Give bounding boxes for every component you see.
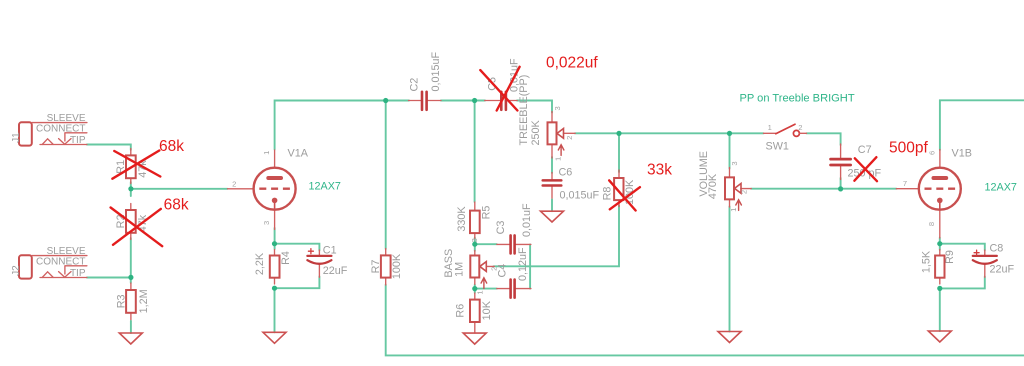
svg-text:22uF: 22uF — [990, 264, 1015, 276]
wire R8 bottom to bass wiper — [494, 206, 620, 267]
resistor R4 — [254, 250, 292, 285]
wire J1 tip to R1 — [87, 145, 131, 151]
junction R1 R2 V1A grid — [128, 186, 133, 191]
svg-text:R4: R4 — [280, 251, 292, 265]
svg-text:500pf: 500pf — [889, 140, 928, 157]
junction C7 at grid net — [838, 186, 843, 191]
svg-text:R8: R8 — [601, 187, 613, 201]
wire top bus to R7 — [385, 101, 387, 250]
svg-text:SW1: SW1 — [766, 140, 789, 152]
svg-text:1: 1 — [475, 290, 484, 294]
svg-text:33k: 33k — [647, 162, 672, 179]
junction R9 C8 ground — [937, 286, 942, 291]
svg-text:2,2K: 2,2K — [254, 252, 266, 275]
svg-text:CONNECT: CONNECT — [36, 123, 85, 134]
wire V1A cathode to R4 and C1 — [275, 228, 320, 332]
capacitor C3 — [495, 203, 533, 253]
switch SW1 — [764, 123, 807, 152]
resistor R1 — [115, 149, 149, 184]
svg-text:250K: 250K — [530, 119, 542, 145]
svg-text:12AX7: 12AX7 — [985, 182, 1017, 194]
cross-out over C5 — [480, 67, 519, 111]
svg-text:1M: 1M — [453, 262, 465, 277]
svg-text:3: 3 — [262, 221, 271, 225]
svg-text:C6: C6 — [559, 167, 573, 179]
capacitor C8 — [973, 243, 1015, 278]
wire top bus to R5 — [474, 101, 476, 203]
capacitor C4 — [497, 247, 531, 298]
svg-text:0,015uF: 0,015uF — [560, 190, 600, 202]
svg-text:C7: C7 — [858, 144, 872, 156]
svg-text:R9: R9 — [944, 250, 956, 264]
wire C3 right to C4 right — [529, 244, 531, 288]
svg-text:1: 1 — [262, 151, 271, 155]
svg-text:TIP: TIP — [70, 268, 86, 279]
svg-text:J1: J1 — [11, 132, 22, 143]
svg-text:V1A: V1A — [288, 148, 309, 160]
svg-text:1: 1 — [768, 123, 772, 132]
wire V1B cathode to R9 and C8 — [940, 238, 985, 332]
capacitor C6 — [543, 167, 600, 212]
resistor R7 — [370, 249, 403, 286]
svg-text:R6: R6 — [454, 304, 466, 318]
svg-text:TREEBLE(PP): TREEBLE(PP) — [518, 75, 530, 146]
capacitor C5 — [485, 58, 521, 110]
svg-text:470K: 470K — [707, 173, 719, 199]
potentiometer VOLUME 470K — [698, 151, 751, 212]
svg-text:SLEEVE: SLEEVE — [47, 113, 86, 124]
wire C7 bottom to grid net — [840, 178, 842, 189]
wire V1B plate to top right — [940, 100, 1024, 150]
wire volume pin1 to ground — [729, 207, 731, 332]
svg-text:6: 6 — [928, 151, 937, 155]
svg-text:R3: R3 — [115, 294, 127, 308]
svg-text:2: 2 — [232, 179, 236, 188]
wire bass pin1 to C4 left and R6 — [475, 285, 497, 294]
svg-text:3: 3 — [470, 238, 479, 242]
cross-out over R2 — [111, 208, 163, 247]
svg-text:J2: J2 — [11, 265, 22, 276]
junction R4 C1 ground — [272, 286, 277, 291]
svg-text:R5: R5 — [481, 206, 493, 220]
svg-text:68k: 68k — [159, 138, 184, 155]
cross-out over R8 — [609, 180, 640, 210]
svg-text:1,5K: 1,5K — [921, 250, 933, 273]
junction top bus at R7 — [383, 98, 388, 103]
svg-text:0,12uF: 0,12uF — [517, 247, 529, 281]
svg-text:2: 2 — [565, 136, 574, 140]
ground under R4 C1 — [263, 332, 286, 343]
wire volume wiper to V1B grid — [751, 188, 897, 190]
svg-text:2: 2 — [798, 123, 802, 132]
wire R5 bottom to bass pin3 and C3 — [475, 238, 497, 252]
wire junction to volume pin3 — [729, 133, 731, 168]
junction bass pin1 — [472, 286, 477, 291]
svg-text:330K: 330K — [456, 206, 468, 232]
svg-text:R7: R7 — [370, 260, 382, 274]
svg-text:12AX7: 12AX7 — [309, 181, 341, 193]
svg-text:7: 7 — [903, 179, 907, 188]
junction wiper net at R8 — [616, 131, 621, 136]
wire V1A plate to top bus — [275, 101, 409, 150]
svg-text:100K: 100K — [391, 253, 403, 279]
junction R2 R3 J2 — [128, 275, 133, 280]
wire R2 bottom to J2 tip and R3 — [87, 238, 131, 283]
svg-text:1,2M: 1,2M — [138, 289, 150, 313]
svg-text:SLEEVE: SLEEVE — [47, 246, 86, 257]
ground under C6 — [541, 211, 564, 222]
cross-out over R1 — [112, 151, 160, 179]
svg-text:C3: C3 — [495, 221, 507, 235]
svg-text:PP on Treeble BRIGHT: PP on Treeble BRIGHT — [740, 93, 855, 105]
connector J1 — [19, 122, 87, 145]
wire treble pin1 to C6 — [551, 157, 553, 173]
junction top bus at R5 — [472, 98, 477, 103]
junction wiper net at volume — [727, 131, 732, 136]
connector J2 — [19, 255, 87, 278]
resistor R8 — [601, 170, 636, 207]
svg-text:0,01uF: 0,01uF — [521, 203, 533, 237]
svg-text:0,015uF: 0,015uF — [430, 51, 442, 91]
svg-text:3: 3 — [730, 161, 739, 165]
resistor R9 — [921, 250, 957, 285]
svg-text:C2: C2 — [408, 78, 420, 92]
junction bass pin3 — [472, 242, 477, 247]
svg-text:C1: C1 — [323, 244, 337, 256]
wire C2 right to C5 left — [441, 100, 485, 102]
svg-text:0,022uf: 0,022uf — [546, 55, 598, 72]
junction V1B cathode — [937, 241, 942, 246]
ground under R3 — [119, 333, 142, 344]
wire SW1 to C7 — [807, 133, 841, 145]
ground under R6 — [463, 333, 486, 344]
potentiometer TREBLE 250K — [518, 75, 575, 161]
resistor R5 — [456, 202, 493, 238]
wire junction to R8 top — [618, 133, 620, 172]
capacitor C1 — [307, 244, 347, 277]
svg-text:1: 1 — [729, 208, 738, 212]
svg-text:CONNECT: CONNECT — [36, 256, 85, 267]
ground under R9 — [928, 331, 951, 342]
wire R1 bottom to V1A grid and R2 — [131, 182, 228, 196]
svg-text:3: 3 — [553, 106, 562, 110]
wire R7 bottom bus to right edge — [386, 285, 1024, 356]
op-amp V1A triode tube — [228, 148, 341, 230]
resistor R6 — [454, 293, 493, 333]
svg-text:10K: 10K — [481, 300, 493, 320]
wire R3 to ground — [130, 321, 132, 333]
svg-text:68k: 68k — [164, 197, 189, 214]
svg-text:1: 1 — [554, 157, 563, 161]
wire treble wiper to SW1 — [575, 132, 764, 134]
svg-text:2: 2 — [740, 190, 749, 194]
junction V1A cathode — [272, 241, 277, 246]
potentiometer BASS 1M — [443, 238, 498, 294]
svg-text:C4: C4 — [497, 264, 509, 278]
wire C5 right to treble pin3 — [517, 101, 552, 113]
resistor R2 — [115, 204, 149, 240]
svg-text:8: 8 — [927, 222, 936, 226]
ground under VOLUME — [718, 332, 741, 343]
cross-out over C7 value — [854, 157, 877, 181]
resistor R3 — [115, 283, 150, 322]
svg-text:22uF: 22uF — [323, 265, 348, 277]
capacitor C2 — [408, 51, 442, 109]
svg-text:V1B: V1B — [952, 148, 972, 160]
op-amp V1B triode tube — [896, 148, 1017, 239]
capacitor C7 — [831, 144, 882, 180]
svg-text:C8: C8 — [990, 243, 1004, 255]
svg-text:TIP: TIP — [70, 135, 86, 146]
